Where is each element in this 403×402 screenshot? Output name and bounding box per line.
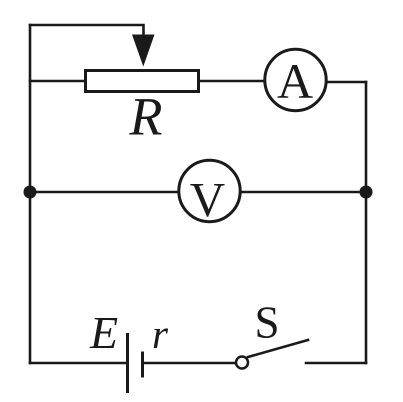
switch S pivot (236, 357, 248, 369)
wire bottom left to battery (30, 362, 126, 365)
node left junction dot (24, 186, 37, 199)
battery E r : long plate (126, 335, 129, 392)
wire switch to bottom-right corner (306, 362, 366, 365)
wire top-left feed to wiper (30, 25, 144, 36)
svg-text:S: S (254, 298, 279, 348)
wire ammeter to right vertical (327, 81, 366, 84)
battery E r : short plate (141, 353, 144, 376)
wire voltmeter to right node (242, 191, 366, 194)
voltmeter V (179, 160, 240, 221)
svg-text:V: V (190, 172, 225, 227)
svg-text:r: r (152, 311, 169, 357)
wire middle left (node to voltmeter) (30, 191, 177, 194)
wire battery to switch (144, 362, 236, 365)
svg-text:R: R (129, 87, 163, 147)
switch S lever (248, 340, 308, 357)
ammeter A (265, 49, 326, 110)
wire rheostat to ammeter (199, 80, 265, 83)
wire left vertical (29, 25, 32, 363)
wire right vertical (365, 82, 368, 363)
wiper arrow (132, 35, 155, 67)
resistor R (rheostat body) (86, 71, 199, 92)
svg-text:E: E (89, 307, 118, 358)
node right junction dot (360, 186, 373, 199)
svg-text:A: A (277, 53, 313, 109)
wire left to rheostat (30, 80, 86, 83)
